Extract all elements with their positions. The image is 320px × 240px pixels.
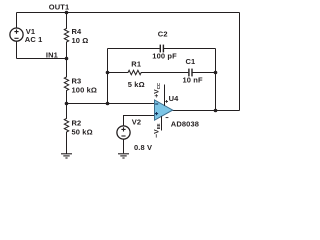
svg-text:AC 1: AC 1 bbox=[25, 35, 43, 44]
svg-text:100 pF: 100 pF bbox=[152, 52, 177, 61]
wire IN1 net bbox=[17, 58, 67, 60]
capacitor C1 bbox=[189, 69, 192, 77]
svg-text:R1: R1 bbox=[131, 59, 141, 68]
svg-text:IN1: IN1 bbox=[46, 50, 58, 59]
wire C2 left lead bbox=[108, 48, 160, 50]
ac source V1 bbox=[10, 28, 23, 41]
svg-text:C1: C1 bbox=[186, 57, 196, 66]
resistor R4 bbox=[64, 13, 68, 59]
ground (R2) bbox=[61, 154, 72, 158]
svg-text:10 Ω: 10 Ω bbox=[72, 36, 89, 45]
svg-text:50 kΩ: 50 kΩ bbox=[72, 127, 93, 136]
resistor R2 bbox=[64, 104, 68, 154]
node feedback left bottom bbox=[106, 102, 110, 106]
node feedback right middle bbox=[214, 71, 218, 75]
wire V1 bottom lead bbox=[16, 41, 18, 58]
svg-text:AD8038: AD8038 bbox=[171, 119, 199, 128]
node output junction bbox=[214, 109, 218, 113]
resistor R1 bbox=[108, 70, 189, 74]
dc source V2 bbox=[117, 126, 130, 153]
wire feedback box right bbox=[215, 49, 217, 111]
svg-text:−VEE: −VEE bbox=[154, 123, 161, 137]
wire C1 right to box bbox=[192, 72, 215, 74]
svg-text:V2: V2 bbox=[132, 118, 141, 127]
node OUT1 junction at R4 top bbox=[65, 11, 69, 15]
wire output bbox=[173, 110, 240, 112]
wire noninverting input bbox=[124, 116, 155, 126]
svg-text:R2: R2 bbox=[72, 118, 82, 127]
wire top OUT1 net bbox=[17, 12, 240, 14]
wire inverting input net bbox=[67, 103, 155, 105]
supply pin -Vee bbox=[162, 116, 169, 130]
svg-text:10 nF: 10 nF bbox=[183, 76, 203, 85]
svg-text:100 kΩ: 100 kΩ bbox=[72, 85, 98, 94]
svg-text:5 kΩ: 5 kΩ bbox=[128, 80, 145, 89]
ground (V2) bbox=[118, 154, 129, 158]
node inverting junction at R3/R2 bbox=[65, 102, 69, 106]
wire C2 right lead bbox=[164, 48, 216, 50]
capacitor C2 bbox=[160, 45, 163, 53]
wire feedback box left bbox=[107, 49, 109, 104]
svg-text:U4: U4 bbox=[169, 94, 180, 103]
supply pin +Vcc bbox=[165, 85, 169, 106]
node feedback left middle bbox=[106, 71, 110, 75]
wire V1 top lead bbox=[16, 13, 18, 29]
svg-text:R4: R4 bbox=[72, 27, 83, 36]
op-amp U4 bbox=[155, 100, 173, 120]
svg-text:OUT1: OUT1 bbox=[49, 2, 69, 11]
svg-text:+VCC: +VCC bbox=[154, 83, 161, 98]
wire right side bbox=[239, 13, 241, 111]
svg-text:C2: C2 bbox=[158, 29, 168, 38]
node IN1 junction bbox=[65, 57, 69, 61]
svg-text:0.8 V: 0.8 V bbox=[134, 143, 152, 152]
resistor R3 bbox=[64, 59, 68, 104]
svg-text:R3: R3 bbox=[72, 77, 82, 86]
